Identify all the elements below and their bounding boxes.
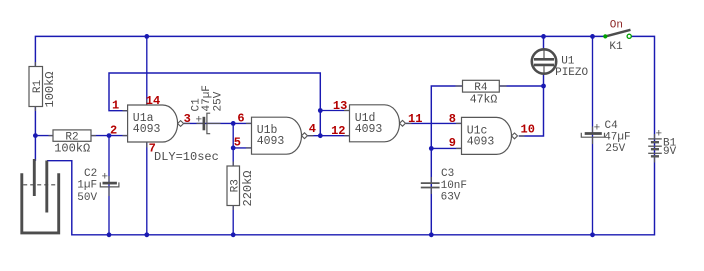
svg-text:12: 12	[331, 124, 345, 138]
svg-text:+: +	[196, 114, 203, 126]
svg-text:4093: 4093	[467, 135, 495, 148]
svg-text:11: 11	[408, 112, 422, 126]
svg-text:47µF: 47µF	[604, 132, 630, 144]
svg-text:1µF: 1µF	[77, 179, 97, 191]
svg-text:25V: 25V	[605, 143, 625, 155]
svg-text:R3: R3	[229, 179, 241, 192]
svg-text:13: 13	[333, 99, 347, 113]
svg-text:47kΩ: 47kΩ	[470, 93, 498, 106]
svg-text:4: 4	[309, 122, 316, 136]
svg-text:10nF: 10nF	[441, 180, 467, 192]
svg-text:+: +	[102, 172, 109, 184]
svg-text:9: 9	[449, 136, 456, 150]
svg-text:C4: C4	[605, 120, 619, 132]
svg-text:25V: 25V	[212, 91, 224, 111]
svg-text:100kΩ: 100kΩ	[43, 71, 57, 107]
svg-text:50V: 50V	[77, 192, 97, 204]
svg-text:47µF: 47µF	[201, 85, 213, 111]
svg-text:4093: 4093	[355, 123, 383, 136]
svg-text:R4: R4	[474, 82, 488, 94]
svg-text:8: 8	[449, 112, 456, 126]
svg-text:14: 14	[146, 94, 160, 108]
svg-text:1: 1	[112, 99, 119, 113]
svg-text:PIEZO: PIEZO	[555, 67, 588, 79]
svg-text:4093: 4093	[133, 123, 161, 136]
svg-text:+: +	[656, 129, 663, 141]
svg-text:2: 2	[110, 123, 117, 137]
svg-text:On: On	[610, 20, 623, 32]
svg-text:+: +	[594, 123, 601, 135]
svg-text:63V: 63V	[441, 192, 461, 204]
svg-text:220kΩ: 220kΩ	[241, 170, 255, 206]
svg-text:6: 6	[237, 111, 244, 125]
svg-text:5: 5	[234, 136, 241, 150]
svg-text:3: 3	[184, 112, 191, 126]
svg-text:9V: 9V	[663, 146, 677, 158]
svg-text:10: 10	[521, 123, 535, 137]
svg-text:U1: U1	[561, 56, 575, 68]
svg-text:7: 7	[149, 142, 156, 156]
svg-text:K1: K1	[609, 41, 623, 53]
svg-text:4093: 4093	[257, 135, 285, 148]
svg-text:C3: C3	[441, 168, 454, 180]
svg-text:C2: C2	[84, 168, 97, 180]
svg-text:100kΩ: 100kΩ	[54, 142, 90, 156]
svg-text:DLY=10sec: DLY=10sec	[154, 150, 219, 164]
